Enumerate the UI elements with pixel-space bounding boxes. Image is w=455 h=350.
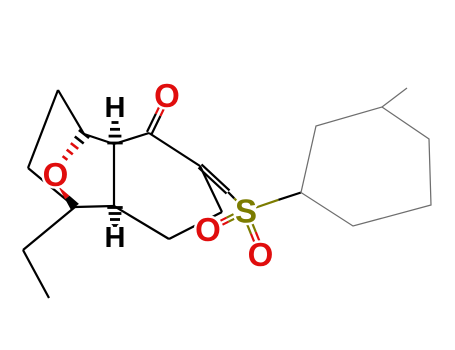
benzene ring of aryl group xyxy=(301,107,431,226)
hashed wedge O_ep to C1 (red near O, black near C1) xyxy=(63,130,90,160)
wire Cbr-Cbot xyxy=(169,212,222,239)
svg-text:O: O xyxy=(43,156,69,193)
wire C5-C4 xyxy=(28,168,75,207)
bold wedge O_ep to C4 (red near O, black near C4) xyxy=(58,186,79,210)
alkene Calpha=CH double bond xyxy=(199,164,230,193)
wire Cbot-C4a xyxy=(114,206,169,239)
sulfone S=O left double bond xyxy=(221,214,236,225)
svg-text:H: H xyxy=(105,222,126,254)
svg-text:O: O xyxy=(248,236,274,273)
hashed wedge C7a to upper H xyxy=(107,123,122,144)
wire C1-C6 xyxy=(58,90,84,134)
wire C4-D1 xyxy=(23,207,75,250)
wire carbonylC-Calpha xyxy=(149,133,200,166)
wire CH-S (black half then olive half) xyxy=(228,192,234,198)
wire Calpha-Cbr xyxy=(200,166,222,212)
wire C7a-C4a xyxy=(113,144,115,206)
ketone C=O double bond xyxy=(147,104,165,134)
wire S-aryl (olive half then black half) xyxy=(256,200,279,208)
svg-text:H: H xyxy=(105,92,126,124)
hashed wedge C4a to lower H xyxy=(107,208,122,226)
methyl stub on ring xyxy=(382,88,407,107)
wire C4-C4a xyxy=(75,206,114,207)
wire C1-C7a xyxy=(84,134,114,144)
wire C7a-carbonylC xyxy=(114,133,149,144)
wire D1-D2 xyxy=(23,250,49,298)
svg-text:S: S xyxy=(235,193,257,230)
svg-text:O: O xyxy=(195,211,221,248)
svg-text:O: O xyxy=(154,77,180,114)
wire C6-C5 xyxy=(28,90,58,168)
sulfone S=O down double bond xyxy=(247,222,259,242)
